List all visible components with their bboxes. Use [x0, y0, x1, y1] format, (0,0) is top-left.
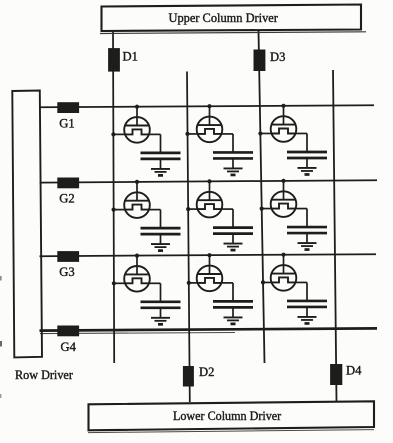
- svg-text:Upper Column Driver: Upper Column Driver: [169, 11, 279, 25]
- svg-text:D1: D1: [123, 50, 138, 64]
- svg-text:G1: G1: [59, 116, 74, 130]
- svg-text:Row Driver: Row Driver: [15, 368, 73, 382]
- svg-text:D4: D4: [346, 363, 362, 377]
- svg-text:D3: D3: [270, 50, 285, 64]
- svg-text:D2: D2: [199, 365, 214, 379]
- svg-text:Lower Column Driver: Lower Column Driver: [173, 409, 281, 423]
- svg-text:G3: G3: [59, 265, 74, 279]
- svg-text:G2: G2: [59, 192, 74, 206]
- svg-text:G4: G4: [61, 340, 77, 354]
